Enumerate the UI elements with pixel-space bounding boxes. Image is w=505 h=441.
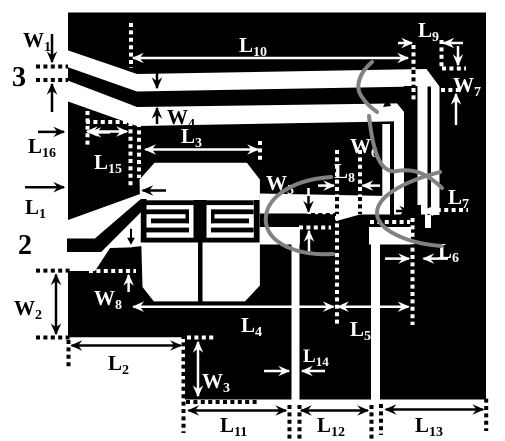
L13 dotted	[379, 404, 383, 435]
white sliver below vertical strip end	[382, 204, 412, 209]
middle-line upper gap	[260, 194, 390, 216]
CPW slot: port-3 lower gap diagonal section	[68, 81, 137, 126]
interdigital capacitor: left spine	[141, 200, 147, 243]
svg-text:W1: W1	[23, 28, 51, 55]
L13 dimension arrow	[386, 408, 484, 411]
L5 dimension line	[338, 305, 409, 308]
vertical CPW center strip (from port-3 bend going down)	[404, 86, 418, 215]
L11 dotted	[288, 405, 292, 439]
W6 arrow	[390, 94, 411, 100]
L6 arrows	[385, 257, 409, 260]
middle line center strip (capacitor output line)	[260, 214, 307, 228]
W7 arrows	[457, 46, 460, 65]
L12 dimension arrow	[301, 409, 368, 412]
W1 dotted strip-edge extensions	[36, 65, 68, 69]
W1 arrows	[51, 34, 54, 62]
L12 dotted	[298, 405, 302, 439]
bend thin floating strip left	[390, 124, 394, 215]
svg-text:L12: L12	[317, 413, 345, 440]
bond wire arc C1 (crossing middle line)	[266, 177, 333, 254]
junction block (bowtie right wedge + block)	[331, 215, 425, 239]
W8 down arrow	[126, 228, 136, 247]
W5 dotted top	[311, 213, 336, 217]
L14 arrows	[264, 370, 289, 373]
port-2 feed strip (black, diagonal)	[67, 199, 147, 252]
L8 dotted lines	[335, 150, 339, 196]
L16 arrow black	[38, 131, 64, 134]
L11 dimension arrow	[188, 409, 286, 412]
junction white window (upper)	[336, 196, 431, 228]
bend thin floating strip right	[428, 92, 432, 215]
L1 inner partner arrow	[143, 189, 167, 192]
W6 dotted line	[346, 96, 409, 100]
narrow neck strip L7	[412, 205, 421, 215]
junction white window repaint (lower)	[369, 227, 411, 245]
svg-text:L2: L2	[108, 351, 129, 378]
capacitor fingers right half	[207, 200, 254, 205]
svg-text:L1: L1	[25, 195, 46, 222]
CPW slot: port-3 upper gap diagonal section	[68, 50, 137, 91]
svg-text:L13: L13	[415, 413, 443, 440]
L16 inner white arrow	[91, 131, 111, 134]
slot: bend left outer vertical slot	[382, 124, 390, 215]
W5 dotted bottom	[299, 226, 331, 230]
slot: bend inner vertical gap	[394, 112, 404, 215]
L6 dotted lines	[370, 220, 410, 224]
taper wedge of middle strip	[307, 214, 332, 228]
L9 dotted right	[440, 40, 444, 67]
L10 dotted left	[129, 23, 133, 68]
CPW slot: port-3 upper gap horizontal run	[137, 69, 440, 92]
W2 dotted lines	[36, 269, 70, 273]
slot: right bend outer vertical slot	[431, 87, 440, 216]
central opening (white window holding interdigital capacitor)	[140, 163, 260, 302]
middle-line lower gap	[260, 227, 300, 245]
vertical strip lower end block	[404, 86, 418, 215]
L7 arrows	[396, 210, 410, 213]
bond wire arc A2 (crossing vertical CPW)	[369, 116, 442, 188]
L2 dotted	[182, 335, 186, 433]
W8 up arrow	[127, 275, 130, 292]
L3 dotted left (opening edge marker)	[137, 123, 141, 178]
L1 arrow	[25, 186, 64, 189]
L3 dotted right	[258, 141, 262, 161]
capacitor right spine	[254, 200, 260, 243]
capacitor fingers left half	[147, 200, 194, 205]
L8 arrows	[318, 184, 334, 187]
L7 dotted line	[422, 208, 468, 212]
W8 dotted line	[89, 269, 136, 273]
svg-text:3: 3	[12, 62, 26, 93]
capacitor center stem (to ground below)	[198, 242, 203, 302]
W3 dimension arrow	[197, 342, 200, 396]
L15 dotted lines	[86, 111, 90, 148]
W5 down arrow	[307, 196, 310, 212]
L10 dotted right	[412, 45, 416, 69]
capacitor center bar	[194, 200, 207, 243]
W5 up arrow	[308, 231, 311, 255]
bond wire arc C2 (crossing junction right)	[377, 172, 441, 246]
ground plane (black metallization region)	[68, 13, 486, 400]
svg-text:L16: L16	[28, 134, 56, 161]
L4 dimension line	[133, 305, 333, 308]
bond wire arc A1 (crossing port-3 CPW)	[358, 62, 377, 112]
L15 dimension arrow	[87, 130, 127, 133]
CPW slot: port-3 lower gap horizontal run	[137, 103, 405, 126]
port-2 lower gap (tapered slot)	[67, 212, 143, 271]
svg-text:2: 2	[18, 230, 32, 261]
svg-text:L11: L11	[220, 413, 247, 440]
vertical slot 1 (below middle line, down to bottom edge)	[292, 243, 300, 400]
L9 arrows	[398, 42, 412, 45]
W2 dimension arrow	[55, 275, 58, 335]
svg-text:W2: W2	[14, 296, 42, 323]
L3 dimension arrow	[145, 148, 258, 151]
L10 dimension arrow	[133, 57, 408, 60]
L2 dimension arrow	[72, 344, 181, 347]
W5 leader tick	[307, 188, 310, 196]
port-2 upper gap (tapered slot)	[67, 194, 141, 239]
W4 arrows	[156, 72, 159, 88]
junction white window (lower)	[369, 227, 411, 245]
vertical slot 2 (from junction window down to bottom edge)	[371, 228, 380, 400]
slot: bend right gap	[418, 87, 428, 215]
W3 dotted	[186, 400, 260, 404]
W7 dotted lines	[442, 67, 466, 71]
